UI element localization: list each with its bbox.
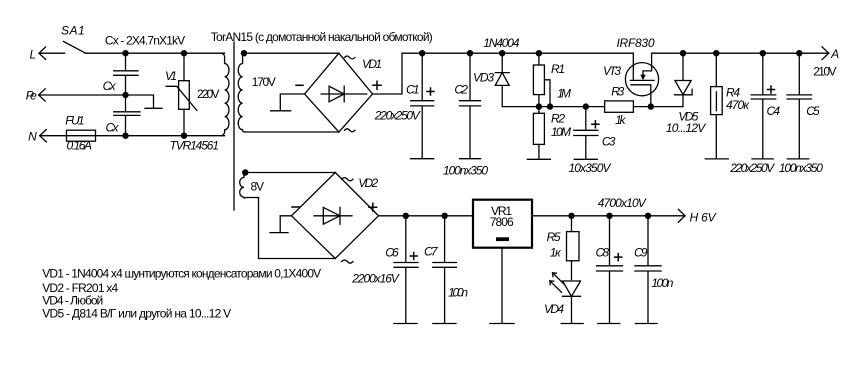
svg-text:10...12V: 10...12V xyxy=(666,121,706,135)
svg-text:TVR14561: TVR14561 xyxy=(170,138,220,152)
svg-text:170V: 170V xyxy=(252,75,276,89)
svg-text:A: A xyxy=(830,47,839,61)
svg-text:C7: C7 xyxy=(424,245,439,259)
svg-text:VD4 - Любой: VD4 - Любой xyxy=(42,293,103,307)
svg-text:VD4: VD4 xyxy=(544,302,564,316)
svg-text:220V: 220V xyxy=(197,87,220,101)
svg-text:Cx: Cx xyxy=(106,121,120,135)
svg-text:1к: 1к xyxy=(550,246,562,260)
svg-text:R2: R2 xyxy=(551,112,565,126)
svg-text:TorAN15 (с домотанной накально: TorAN15 (с домотанной накальной обмоткой… xyxy=(211,30,433,44)
svg-text:C1: C1 xyxy=(406,83,420,97)
svg-text:C9: C9 xyxy=(634,246,648,260)
svg-text:VT3: VT3 xyxy=(603,64,621,78)
svg-text:4700x10V: 4700x10V xyxy=(598,196,647,210)
svg-text:C8: C8 xyxy=(596,246,610,260)
svg-text:VD1 - 1N4004 x4 шунтируются ко: VD1 - 1N4004 x4 шунтируются конденсатора… xyxy=(42,267,321,281)
svg-text:100nx350: 100nx350 xyxy=(443,164,488,178)
svg-text:1M: 1M xyxy=(557,87,571,101)
svg-text:L: L xyxy=(30,48,37,62)
svg-text:1N4004: 1N4004 xyxy=(483,36,520,50)
svg-text:C6: C6 xyxy=(385,246,399,260)
svg-text:VD2: VD2 xyxy=(358,176,378,190)
svg-text:C4: C4 xyxy=(767,104,781,118)
svg-text:2200x16V: 2200x16V xyxy=(351,272,399,286)
svg-text:VD5 - Д814 В/Г или другой на 1: VD5 - Д814 В/Г или другой на 10...12 V xyxy=(42,306,231,320)
svg-text:VD3: VD3 xyxy=(473,71,494,85)
svg-text:Cx: Cx xyxy=(103,79,117,93)
svg-text:100n: 100n xyxy=(448,286,468,300)
svg-text:470к: 470к xyxy=(726,98,750,112)
svg-text:VD1: VD1 xyxy=(362,57,382,71)
svg-text:Pe: Pe xyxy=(26,88,37,102)
svg-text:R1: R1 xyxy=(551,62,565,76)
svg-text:C3: C3 xyxy=(602,135,616,149)
svg-text:220x250V: 220x250V xyxy=(729,161,775,175)
svg-text:FU1: FU1 xyxy=(65,114,84,128)
svg-text:IRF830: IRF830 xyxy=(617,36,655,50)
svg-text:V1: V1 xyxy=(165,69,177,83)
svg-text:10x350V: 10x350V xyxy=(569,161,612,175)
svg-text:210V: 210V xyxy=(813,65,836,79)
svg-text:N: N xyxy=(28,129,37,143)
svg-text:7806: 7806 xyxy=(490,215,514,229)
svg-text:R5: R5 xyxy=(547,230,561,244)
svg-text:220x250V: 220x250V xyxy=(374,108,421,122)
svg-text:R3: R3 xyxy=(611,85,624,99)
svg-text:H 6V: H 6V xyxy=(690,211,717,225)
svg-text:1k: 1k xyxy=(615,113,626,127)
svg-text:SA1: SA1 xyxy=(61,24,85,38)
svg-text:C2: C2 xyxy=(454,83,468,97)
svg-text:Cx - 2X4.7nX1kV: Cx - 2X4.7nX1kV xyxy=(105,33,185,47)
svg-text:100n: 100n xyxy=(651,276,673,290)
svg-text:100nx350: 100nx350 xyxy=(779,161,823,175)
svg-text:10M: 10M xyxy=(551,125,571,139)
svg-text:0.16A: 0.16A xyxy=(67,139,93,153)
svg-text:8V: 8V xyxy=(251,180,265,194)
svg-text:C5: C5 xyxy=(806,104,820,118)
